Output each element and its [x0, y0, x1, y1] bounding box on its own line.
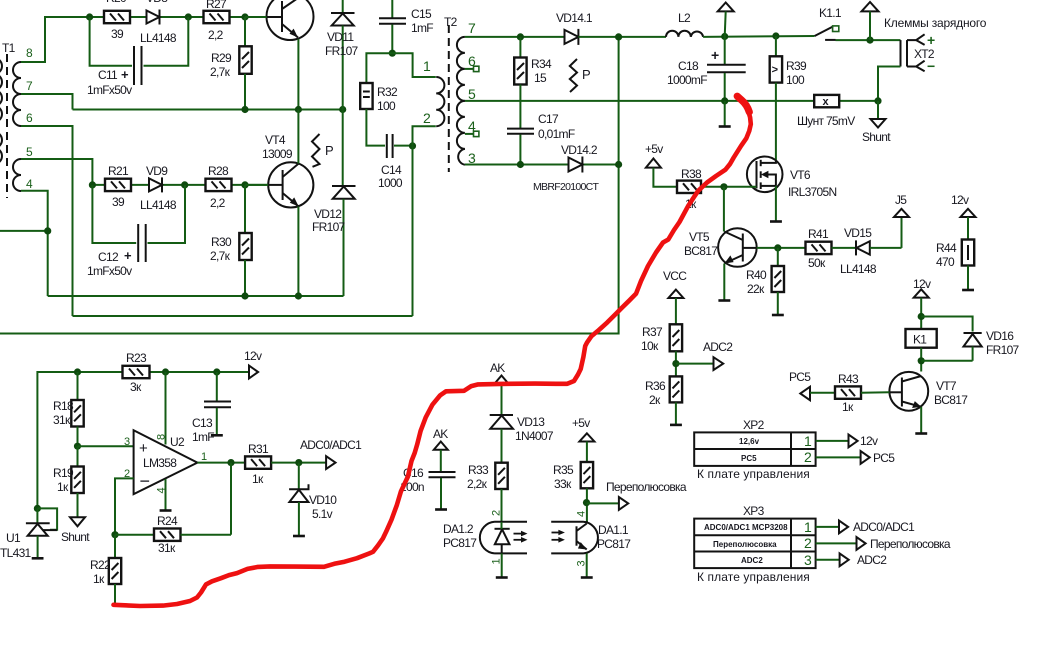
- svg-text:P: P: [582, 67, 591, 82]
- wire emitter bus y296: [48, 295, 344, 297]
- svg-text:7: 7: [468, 20, 476, 36]
- svg-text:LL4148: LL4148: [140, 198, 177, 212]
- optocoupler DA1.2 LED side: [443, 510, 528, 578]
- svg-text:TL431: TL431: [0, 546, 32, 560]
- svg-text:VD11: VD11: [327, 30, 354, 44]
- svg-text:3: 3: [124, 436, 130, 448]
- svg-text:1mF: 1mF: [411, 21, 433, 35]
- svg-text:3: 3: [804, 552, 812, 568]
- svg-text:R35: R35: [553, 463, 574, 477]
- wire T2 pin5 shunt bus: [465, 100, 814, 102]
- resistor R37: [641, 324, 682, 376]
- svg-text:+5v: +5v: [645, 142, 663, 156]
- node VD14.2 cathode: [615, 161, 622, 168]
- svg-text:Клеммы зарядного: Клеммы зарядного: [884, 16, 987, 30]
- node pin3: [74, 443, 81, 450]
- wire K1.1 to XT2: [836, 39, 901, 41]
- svg-text:R37: R37: [642, 325, 663, 339]
- svg-text:6: 6: [26, 111, 33, 125]
- svg-text:К плате управления: К плате управления: [697, 467, 810, 481]
- svg-text:2: 2: [491, 510, 503, 516]
- svg-text:U2: U2: [170, 435, 185, 449]
- wire long return bus y333.5: [0, 37, 619, 334]
- svg-text:−: −: [927, 58, 935, 74]
- power flag +5v to R38: [645, 142, 677, 187]
- capacitor C12: [87, 185, 185, 278]
- svg-text:4: 4: [26, 177, 33, 191]
- connector XP3: [694, 504, 815, 584]
- svg-text:J5: J5: [895, 193, 907, 207]
- power flag AK lower: [433, 427, 448, 471]
- svg-text:100: 100: [786, 73, 805, 87]
- svg-text:1: 1: [804, 519, 812, 535]
- svg-text:R24: R24: [157, 514, 178, 528]
- resistor R44: [936, 240, 974, 291]
- node R29 bottom: [241, 106, 248, 113]
- svg-text:Shunt: Shunt: [61, 530, 90, 544]
- power flag +5v for R35: [572, 416, 594, 462]
- node C13 top: [213, 368, 220, 375]
- wire VT3 emitter down: [297, 39, 299, 110]
- wire top bus R20 row: [90, 16, 267, 18]
- relay contact K1.1: [815, 6, 842, 40]
- wire R38 to VT6 gate: [701, 186, 757, 188]
- resistor R29: [210, 17, 252, 110]
- svg-text:Переполюсовка: Переполюсовка: [606, 480, 687, 494]
- node R40 top: [774, 244, 781, 251]
- capacitor C16: [400, 466, 456, 510]
- power flag 12v for R44: [951, 193, 976, 240]
- svg-text:1mF: 1mF: [192, 430, 214, 444]
- svg-text:R30: R30: [211, 235, 232, 249]
- diode VD16: [964, 329, 1020, 361]
- svg-text:K1: K1: [913, 333, 927, 347]
- svg-text:+5v: +5v: [572, 416, 590, 430]
- svg-text:K1.1: K1.1: [819, 6, 842, 20]
- transformer T1 primary winding (cut at left edge): [0, 58, 2, 122]
- resistor R28: [206, 164, 232, 210]
- svg-text:2: 2: [804, 449, 812, 465]
- node R18 top: [74, 368, 81, 375]
- wire pin4 down to emitter bus: [21, 191, 48, 296]
- svg-text:Переполюсовка: Переполюсовка: [713, 540, 777, 549]
- svg-text:5: 5: [468, 86, 476, 102]
- node VD11 bus: [339, 106, 346, 113]
- relay coil K1: [906, 329, 937, 348]
- svg-text:VD9: VD9: [146, 164, 168, 178]
- node battery plus: [866, 37, 873, 44]
- svg-text:T1: T1: [2, 41, 16, 55]
- svg-text:Shunt: Shunt: [862, 130, 891, 144]
- svg-text:VD10: VD10: [309, 493, 337, 507]
- svg-text:R33: R33: [468, 463, 489, 477]
- transformer T2 secondary winding 7-6-5: [457, 37, 465, 101]
- svg-text:DA1.2: DA1.2: [443, 522, 474, 536]
- svg-text:C14: C14: [381, 163, 402, 177]
- node right of R28: [241, 181, 248, 188]
- wire output to R24: [230, 463, 232, 535]
- wire 12v rail row: [37, 372, 249, 508]
- svg-text:2,2: 2,2: [210, 196, 226, 210]
- node left of R20: [86, 13, 93, 20]
- svg-text:R41: R41: [808, 227, 829, 241]
- diode VD14.2: [533, 143, 600, 193]
- node right of VD8: [185, 13, 192, 20]
- power flag J5: [870, 193, 909, 248]
- resistor R27: [204, 0, 230, 42]
- wire T2 pin7 to VD14.1: [465, 36, 565, 38]
- svg-text:P: P: [325, 143, 334, 158]
- svg-text:12v: 12v: [951, 193, 969, 207]
- shunt flag below R19: [61, 517, 90, 544]
- wire VD14.1 to L2 node: [578, 36, 666, 38]
- transistor VT7: [889, 372, 968, 411]
- svg-text:7: 7: [26, 79, 33, 93]
- svg-text:5: 5: [26, 145, 33, 159]
- svg-text:1000mF: 1000mF: [667, 73, 707, 87]
- resistor R43: [810, 372, 889, 414]
- svg-text:470: 470: [936, 255, 955, 269]
- wire VT5 emitter to terminal: [718, 264, 730, 301]
- wire XP3 pin1 to arrow: [816, 526, 839, 528]
- svg-text:VD12: VD12: [314, 207, 342, 221]
- shunt flag: [862, 101, 891, 144]
- svg-text:VD8: VD8: [146, 0, 168, 5]
- svg-text:C11: C11: [98, 68, 118, 82]
- svg-text:VD14.2: VD14.2: [561, 143, 598, 157]
- svg-text:1: 1: [201, 451, 207, 463]
- arrow ADC2: [703, 340, 733, 370]
- power flag AK upper: [490, 361, 509, 415]
- svg-text:>: >: [772, 64, 778, 76]
- inductor L2: [666, 11, 703, 37]
- wire left-edge stub to pin4 line: [0, 230, 48, 232]
- svg-text:ADC2: ADC2: [703, 340, 733, 354]
- svg-text:+: +: [139, 440, 148, 457]
- svg-text:33к: 33к: [554, 477, 572, 491]
- wire pin8 supply: [165, 372, 167, 445]
- power flag VCC: [663, 269, 687, 324]
- svg-text:К плате управления: К плате управления: [697, 570, 810, 584]
- svg-text:IRL3705N: IRL3705N: [788, 185, 836, 199]
- wire C14 node down to return bus: [412, 146, 414, 316]
- resistor R38: [677, 167, 702, 211]
- capacitor C11: [87, 17, 188, 97]
- wire K1 bottom to node: [920, 348, 922, 372]
- transformer T2 core: [448, 25, 450, 172]
- svg-text:50к: 50к: [808, 256, 826, 270]
- svg-text:R31: R31: [248, 442, 269, 456]
- node ADC2: [672, 360, 679, 367]
- arrow ADC0/ADC1: [839, 520, 915, 534]
- mosfet VT6: [747, 157, 837, 200]
- svg-text:+: +: [711, 47, 719, 63]
- svg-text:2,2к: 2,2к: [467, 477, 488, 491]
- svg-text:2: 2: [804, 535, 812, 551]
- resistor R32: [360, 53, 398, 145]
- svg-text:ADC0/ADC1: ADC0/ADC1: [300, 438, 362, 452]
- svg-text:13009: 13009: [262, 147, 293, 161]
- svg-text:VD16: VD16: [986, 329, 1014, 343]
- transformer T2 primary winding: [436, 77, 444, 126]
- svg-text:1: 1: [491, 558, 503, 564]
- svg-text:LL4148: LL4148: [140, 31, 177, 45]
- svg-text:R44: R44: [936, 241, 957, 255]
- arrow 12v: [849, 434, 878, 448]
- shunt box X: [797, 95, 878, 128]
- resistor R18: [53, 372, 84, 446]
- pin 6 tap pad: [465, 66, 479, 71]
- svg-text:1N4007: 1N4007: [515, 429, 554, 443]
- node C14 right: [409, 142, 416, 149]
- node U1 ref: [34, 505, 41, 512]
- svg-text:1к: 1к: [252, 472, 264, 486]
- svg-text:12v: 12v: [244, 349, 262, 363]
- wire pin5 to R21 node: [21, 159, 92, 185]
- node right of R27: [241, 13, 248, 20]
- wire VT6 source to terminal: [770, 186, 782, 222]
- node VT4 emitter bus: [295, 292, 302, 299]
- svg-text:BC817: BC817: [934, 393, 968, 407]
- svg-text:R28: R28: [208, 164, 229, 178]
- svg-text:L2: L2: [678, 11, 691, 25]
- svg-text:R40: R40: [746, 268, 767, 282]
- node K1 top: [918, 313, 925, 320]
- connector XP2: [694, 418, 815, 481]
- svg-text:VD13: VD13: [517, 415, 545, 429]
- diode VD9: [140, 164, 177, 212]
- resistor R41: [806, 227, 832, 270]
- resistor R19: [53, 446, 84, 517]
- arrow PC5 (left): [789, 370, 811, 400]
- wire VT5 base to R41: [757, 247, 806, 249]
- svg-text:VT7: VT7: [936, 379, 957, 393]
- transformer T1 winding 5-4: [13, 159, 21, 191]
- svg-text:VD14.1: VD14.1: [556, 11, 593, 25]
- svg-text:Шунт 75mV: Шунт 75mV: [797, 114, 855, 128]
- svg-text:R22: R22: [90, 558, 111, 572]
- svg-text:+: +: [927, 32, 935, 48]
- wire pin2: [115, 478, 134, 534]
- wire to reverse-polarity arrow: [587, 502, 619, 504]
- arrow 12v rail: [244, 349, 262, 378]
- diode VD15: [832, 226, 877, 276]
- svg-text:x: x: [823, 96, 830, 108]
- resistor R35: [553, 462, 593, 522]
- node C17 bottom: [517, 161, 524, 168]
- capacitor C18: [667, 37, 746, 101]
- node VT7 collector: [918, 357, 925, 364]
- arrow ADC2: [840, 553, 888, 567]
- node pin4/stub junction: [44, 227, 51, 234]
- svg-text:VT6: VT6: [790, 168, 811, 182]
- svg-text:31к: 31к: [53, 413, 71, 427]
- svg-text:1: 1: [423, 58, 431, 74]
- thermistor mark P near R34: [570, 59, 591, 92]
- wire VT4 collector: [297, 110, 299, 164]
- svg-text:XP2: XP2: [743, 418, 765, 432]
- svg-text:C15: C15: [411, 7, 432, 21]
- svg-text:2,7к: 2,7к: [210, 65, 231, 79]
- resistor R39: [770, 36, 807, 161]
- svg-text:PC817: PC817: [443, 536, 477, 550]
- shunt regulator U1 TL431: [0, 508, 57, 560]
- svg-text:DA1.1: DA1.1: [598, 523, 629, 537]
- node VD14.1 cathode bus: [615, 33, 622, 40]
- arrow reverse-polarity out: [606, 480, 687, 510]
- svg-text:1к: 1к: [57, 480, 69, 494]
- node pin8 top: [162, 368, 169, 375]
- svg-text:AK: AK: [433, 427, 448, 441]
- svg-text:PC817: PC817: [597, 537, 631, 551]
- wire pin7 to mid bus: [21, 94, 73, 110]
- svg-text:R23: R23: [126, 351, 147, 365]
- svg-text:1000: 1000: [378, 176, 403, 190]
- svg-text:VCC: VCC: [663, 269, 687, 283]
- svg-text:R38: R38: [681, 167, 702, 181]
- resistor R30: [210, 185, 252, 296]
- svg-text:1mFx50v: 1mFx50v: [87, 83, 132, 97]
- svg-text:FR107: FR107: [986, 343, 1020, 357]
- svg-text:R19: R19: [53, 466, 74, 480]
- node R39 top: [772, 32, 779, 39]
- wire L2 to K1.1: [703, 35, 815, 38]
- power flag above node: [862, 2, 879, 40]
- transformer T1 secondary winding 8-7-6: [13, 62, 21, 126]
- svg-text:AK: AK: [490, 361, 505, 375]
- svg-text:1mFx50v: 1mFx50v: [87, 264, 132, 278]
- svg-text:22к: 22к: [747, 282, 765, 296]
- diode VD11: [325, 0, 359, 186]
- red arrow tip: [737, 96, 749, 112]
- svg-text:LL4148: LL4148: [840, 262, 877, 276]
- node VT3 emitter bus: [295, 106, 302, 113]
- svg-text:39: 39: [112, 195, 125, 209]
- connector XT2: [901, 32, 936, 74]
- node DA1.1 collector: [583, 499, 590, 506]
- red freehand annotation line: [114, 112, 751, 606]
- svg-text:15: 15: [534, 71, 547, 85]
- diode VD13: [490, 415, 554, 463]
- svg-text:C12: C12: [98, 250, 119, 264]
- svg-text:ADC2: ADC2: [857, 553, 887, 567]
- svg-text:2,2: 2,2: [208, 28, 224, 42]
- svg-text:R29: R29: [211, 51, 232, 65]
- resistor R20: [104, 0, 130, 41]
- wire mid bus y109: [73, 109, 343, 111]
- wire return bus y316: [73, 315, 413, 317]
- thermistor mark P near VT4: [312, 134, 334, 167]
- svg-text:PC5: PC5: [741, 454, 757, 463]
- svg-text:C17: C17: [538, 112, 559, 126]
- resistor R31: [245, 442, 326, 486]
- diode VD12: [312, 186, 356, 296]
- resistor R22: [90, 535, 121, 605]
- svg-text:+: +: [121, 67, 129, 82]
- svg-text:C13: C13: [192, 416, 213, 430]
- node gate / VT5 collector: [720, 183, 727, 190]
- svg-text:39: 39: [111, 27, 124, 41]
- transformer T2 primary pin1 lead: [392, 53, 436, 77]
- optocoupler DA1.1 transistor side: [551, 511, 631, 578]
- svg-text:R39: R39: [786, 59, 807, 73]
- transformer T1 core: [6, 54, 8, 198]
- svg-text:Переполюсовка: Переполюсовка: [870, 537, 951, 551]
- svg-text:8: 8: [26, 46, 33, 60]
- node R30 bottom: [241, 292, 248, 299]
- diode VD8: [140, 0, 177, 45]
- svg-text:5.1v: 5.1v: [312, 507, 333, 521]
- svg-text:BC817: BC817: [684, 244, 718, 258]
- svg-text:R27: R27: [206, 0, 227, 11]
- resistor R33: [467, 463, 508, 522]
- svg-text:PC5: PC5: [873, 451, 895, 465]
- svg-text:3к: 3к: [130, 380, 142, 394]
- resistor R24: [115, 514, 231, 555]
- svg-text:ADC2: ADC2: [741, 556, 763, 565]
- node R34 top: [517, 33, 524, 40]
- transistor VT5 (mirrored): [684, 187, 757, 267]
- transformer T2 primary pin2 lead: [413, 126, 436, 146]
- wire node to VD16 top: [921, 317, 972, 332]
- svg-text:ADC0/ADC1: ADC0/ADC1: [853, 520, 915, 534]
- arrow reverse-polarity: [857, 537, 951, 551]
- svg-text:C18: C18: [678, 59, 699, 73]
- arrow PC5: [861, 451, 896, 465]
- node right of VD9: [181, 181, 188, 188]
- wire VT7 emitter to terminal: [915, 407, 927, 434]
- wire XP2 pin1 to 12v arrow: [816, 440, 849, 442]
- node C18 bottom on shunt bus: [721, 97, 728, 104]
- svg-text:2,7к: 2,7к: [210, 249, 231, 263]
- zener VD10: [289, 463, 337, 536]
- svg-text:R21: R21: [108, 164, 129, 178]
- svg-text:1к: 1к: [842, 400, 854, 414]
- svg-text:R34: R34: [531, 57, 552, 71]
- svg-text:12v: 12v: [860, 434, 878, 448]
- wire to ADC2 arrow: [676, 363, 714, 365]
- transformer T2 secondary winding 5-4-3: [457, 101, 465, 165]
- wire T2 pin3 row: [465, 164, 619, 166]
- wire XP3 pin3 to arrow: [816, 559, 840, 561]
- svg-text:1: 1: [804, 433, 812, 449]
- wire R21 row bus: [92, 184, 268, 186]
- svg-text:VT5: VT5: [689, 230, 710, 244]
- wire XT2 minus to shunt node: [878, 67, 901, 101]
- node R24 left / R22 top: [111, 531, 118, 538]
- svg-text:R36: R36: [645, 379, 666, 393]
- wire pin4 to terminal: [160, 479, 172, 511]
- resistor R23: [123, 351, 150, 394]
- svg-text:0,01mF: 0,01mF: [538, 127, 575, 141]
- svg-text:R20: R20: [106, 0, 127, 5]
- svg-text:U1: U1: [6, 531, 21, 545]
- svg-text:ADC0/ADC1 MCP3208: ADC0/ADC1 MCP3208: [704, 523, 788, 532]
- svg-text:VD15: VD15: [844, 226, 872, 240]
- svg-text:10к: 10к: [641, 339, 659, 353]
- terminal below C18 node: [719, 101, 731, 127]
- svg-text:2к: 2к: [649, 393, 661, 407]
- svg-text:T2: T2: [444, 15, 458, 29]
- svg-text:PC5: PC5: [789, 370, 811, 384]
- diode VD14.1: [556, 11, 593, 45]
- capacitor C13: [192, 372, 231, 444]
- svg-text:1к: 1к: [93, 572, 105, 586]
- svg-text:−: −: [140, 471, 151, 491]
- svg-text:12,6v: 12,6v: [739, 437, 760, 446]
- node C18 top: [721, 33, 728, 40]
- svg-text:100: 100: [377, 99, 396, 113]
